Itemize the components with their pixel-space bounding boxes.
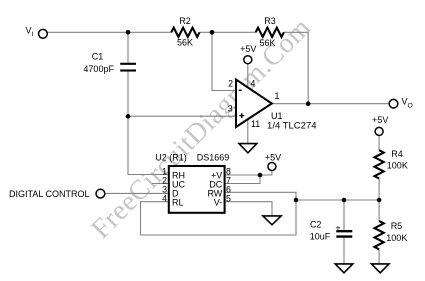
- wire C1 top lead: [127, 32, 129, 63]
- svg-text:2: 2: [228, 79, 233, 89]
- wire main node row to R4/R5 junction: [296, 199, 379, 201]
- svg-text:R4: R4: [391, 149, 403, 159]
- IC U2 DS1669: [169, 166, 225, 213]
- ground (C2): [335, 264, 353, 273]
- wire op-amp +5V supply: [247, 64, 249, 88]
- resistor R2: [171, 28, 199, 37]
- terminal Vi: [39, 29, 48, 38]
- wire RW pin 6 to node: [225, 192, 297, 200]
- resistor R5: [375, 221, 384, 249]
- svg-text:11: 11: [251, 119, 260, 129]
- wire C2 top lead: [343, 200, 345, 230]
- wire node to op-amp non-inverting input pin 3: [128, 115, 236, 117]
- svg-text:3: 3: [228, 104, 233, 114]
- node RW/RL junction: [294, 198, 299, 203]
- node +V/DC junction: [258, 173, 263, 178]
- wire pin 7 DC up to +V node: [225, 175, 261, 184]
- +5V supply terminal (op-amp): [244, 56, 252, 64]
- wire op-amp pin 11 to ground: [247, 119, 249, 144]
- wire RL pin 4 loop to node: [141, 200, 297, 235]
- wire UC stub pin 2: [152, 183, 170, 185]
- capacitor C1: [120, 64, 136, 71]
- ground (V- pin 5): [263, 216, 281, 225]
- svg-text:+: +: [336, 222, 341, 232]
- op-amp U1: [236, 80, 272, 128]
- node R2/R3 junction: [210, 30, 215, 35]
- wire Vi to R2: [47, 31, 172, 33]
- svg-text:R2: R2: [179, 16, 191, 26]
- svg-text:56K: 56K: [177, 38, 193, 48]
- svg-text:R5: R5: [391, 221, 403, 231]
- svg-text:VI: VI: [26, 25, 34, 38]
- svg-text:+5V: +5V: [240, 44, 256, 54]
- node C2 junction: [342, 198, 347, 203]
- wire +5V to R4 top: [378, 136, 380, 151]
- svg-text:5: 5: [226, 194, 231, 204]
- capacitor C2: [336, 231, 352, 236]
- wire node down to DS1669 pin 1 RH: [128, 116, 170, 174]
- svg-text:1: 1: [274, 91, 279, 101]
- node output junction: [306, 101, 311, 106]
- svg-text:100K: 100K: [386, 233, 407, 243]
- wire pin 5 V- to ground: [225, 202, 273, 216]
- terminal DIGITAL CONTROL: [96, 189, 105, 198]
- resistor R4: [375, 150, 384, 178]
- terminal Vo: [389, 99, 398, 108]
- svg-text:4700pF: 4700pF: [83, 64, 114, 74]
- wire op-amp output to Vo: [272, 103, 389, 105]
- svg-text:DIGITAL CONTROL: DIGITAL CONTROL: [9, 189, 90, 199]
- terminal +5V (R4 top): [375, 127, 383, 135]
- svg-text:U2 (R1): U2 (R1): [155, 152, 187, 162]
- wire node to R5 top: [378, 200, 380, 221]
- resistor R3: [256, 28, 284, 37]
- svg-text:4: 4: [162, 194, 167, 204]
- node Vi junction: [126, 30, 131, 35]
- svg-text:VO: VO: [402, 97, 413, 110]
- svg-text:DS1669: DS1669: [197, 152, 230, 162]
- wire C2 bottom lead to ground: [343, 238, 345, 264]
- ground (op-amp pin 11): [239, 144, 257, 153]
- node R4/R5 junction: [377, 198, 382, 203]
- svg-text:+5V: +5V: [372, 115, 388, 125]
- wire digital control to pin 3 D: [105, 192, 170, 194]
- wire C1 bottom lead to node: [127, 71, 129, 116]
- svg-text:4: 4: [251, 79, 256, 89]
- wire pin 8 +V to +5V terminal: [225, 171, 272, 175]
- svg-text:1/4 TLC274: 1/4 TLC274: [267, 120, 316, 131]
- svg-text:V-: V-: [214, 198, 223, 208]
- wire R4 bottom to node: [378, 179, 380, 201]
- ground (R5): [371, 264, 389, 273]
- wire node to op-amp inverting input pin 2: [212, 32, 236, 90]
- svg-text:C1: C1: [92, 52, 104, 62]
- wire R2 to R3 through node: [200, 31, 257, 33]
- svg-text:10uF: 10uF: [310, 232, 331, 242]
- svg-text:C2: C2: [310, 219, 322, 229]
- svg-text:RL: RL: [172, 198, 184, 208]
- svg-text:+5V: +5V: [265, 153, 281, 163]
- terminal +5V (DS1669 supply): [268, 163, 276, 171]
- svg-text:R3: R3: [264, 16, 276, 26]
- wire R5 bottom to ground: [378, 250, 380, 264]
- svg-text:56K: 56K: [259, 38, 275, 48]
- svg-text:100K: 100K: [387, 161, 408, 171]
- wire R3 right then down to output node: [284, 32, 309, 103]
- node pin3/C1/RH junction: [126, 114, 131, 119]
